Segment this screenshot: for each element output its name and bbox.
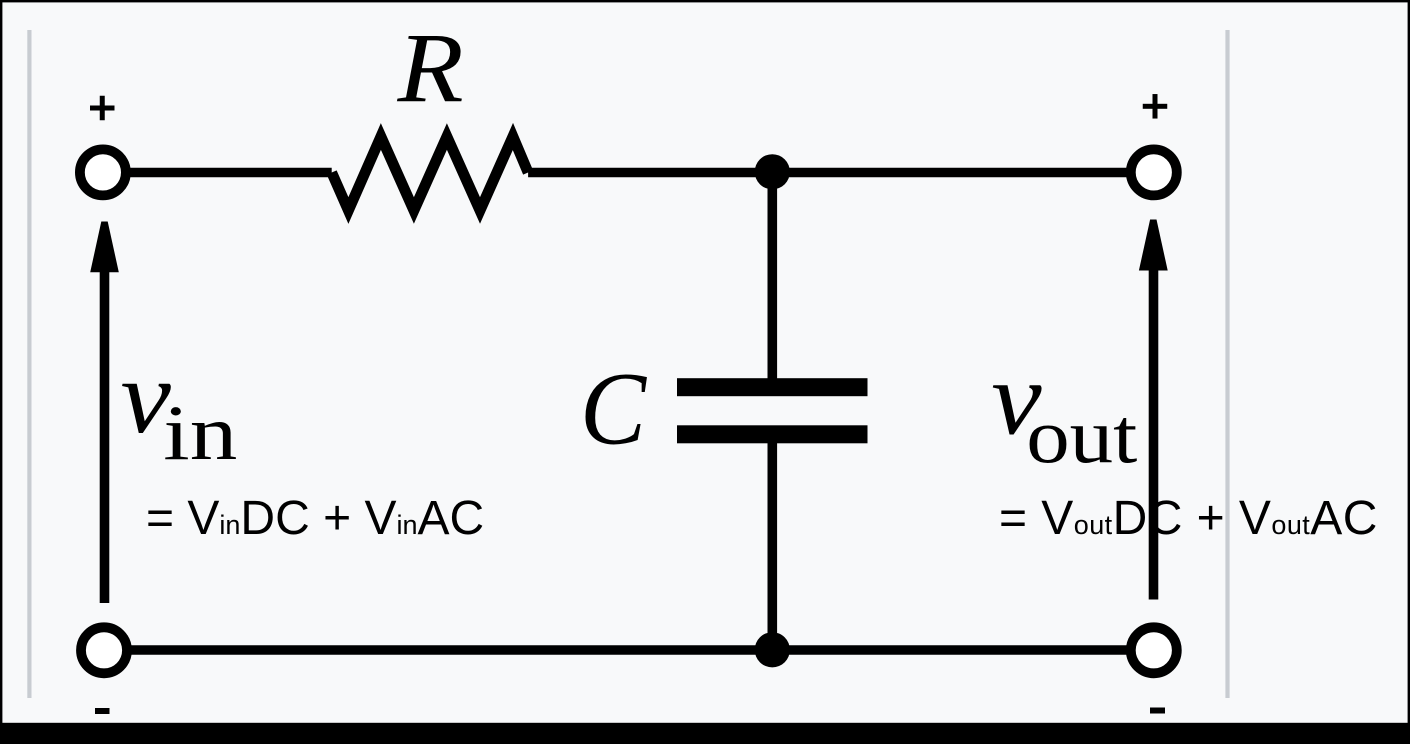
svg-text:R: R — [396, 12, 463, 123]
label v_out — [991, 340, 1042, 456]
resistor R — [332, 137, 528, 211]
wire capacitor top lead — [767, 172, 777, 380]
arrowhead of v_out arrow — [1139, 220, 1168, 271]
label C — [580, 351, 647, 466]
svg-text:out: out — [1026, 392, 1137, 479]
input terminal bottom-left — [81, 627, 127, 673]
wire right arrow shaft — [1149, 271, 1159, 600]
output terminal top-right — [1131, 149, 1177, 195]
input terminal top-left — [80, 149, 126, 195]
plus sign top-left — [90, 96, 115, 121]
label R — [396, 12, 463, 123]
output terminal bottom-right — [1131, 627, 1177, 673]
wire top-right: resistor to output terminal — [528, 168, 1131, 178]
node B: bottom junction dot — [755, 632, 790, 667]
label v_in — [121, 339, 172, 455]
minus sign bottom-left — [95, 708, 110, 714]
plus sign top-right — [1143, 94, 1168, 119]
capacitor C plates — [677, 378, 868, 396]
wire top-left: input terminal to resistor — [128, 168, 332, 178]
wire bottom rail — [128, 645, 1131, 655]
svg-text:= VoutDC + VoutAC: = VoutDC + VoutAC — [999, 492, 1378, 545]
node A: top junction dot — [755, 154, 790, 189]
minus sign bottom-right — [1150, 708, 1165, 714]
svg-text:= VinDC + VinAC: = VinDC + VinAC — [146, 492, 484, 545]
wire left arrow shaft — [100, 272, 110, 603]
svg-text:in: in — [163, 389, 237, 476]
arrowhead of v_in arrow — [90, 222, 119, 273]
svg-text:C: C — [580, 351, 647, 466]
wire capacitor bottom lead — [767, 440, 777, 650]
